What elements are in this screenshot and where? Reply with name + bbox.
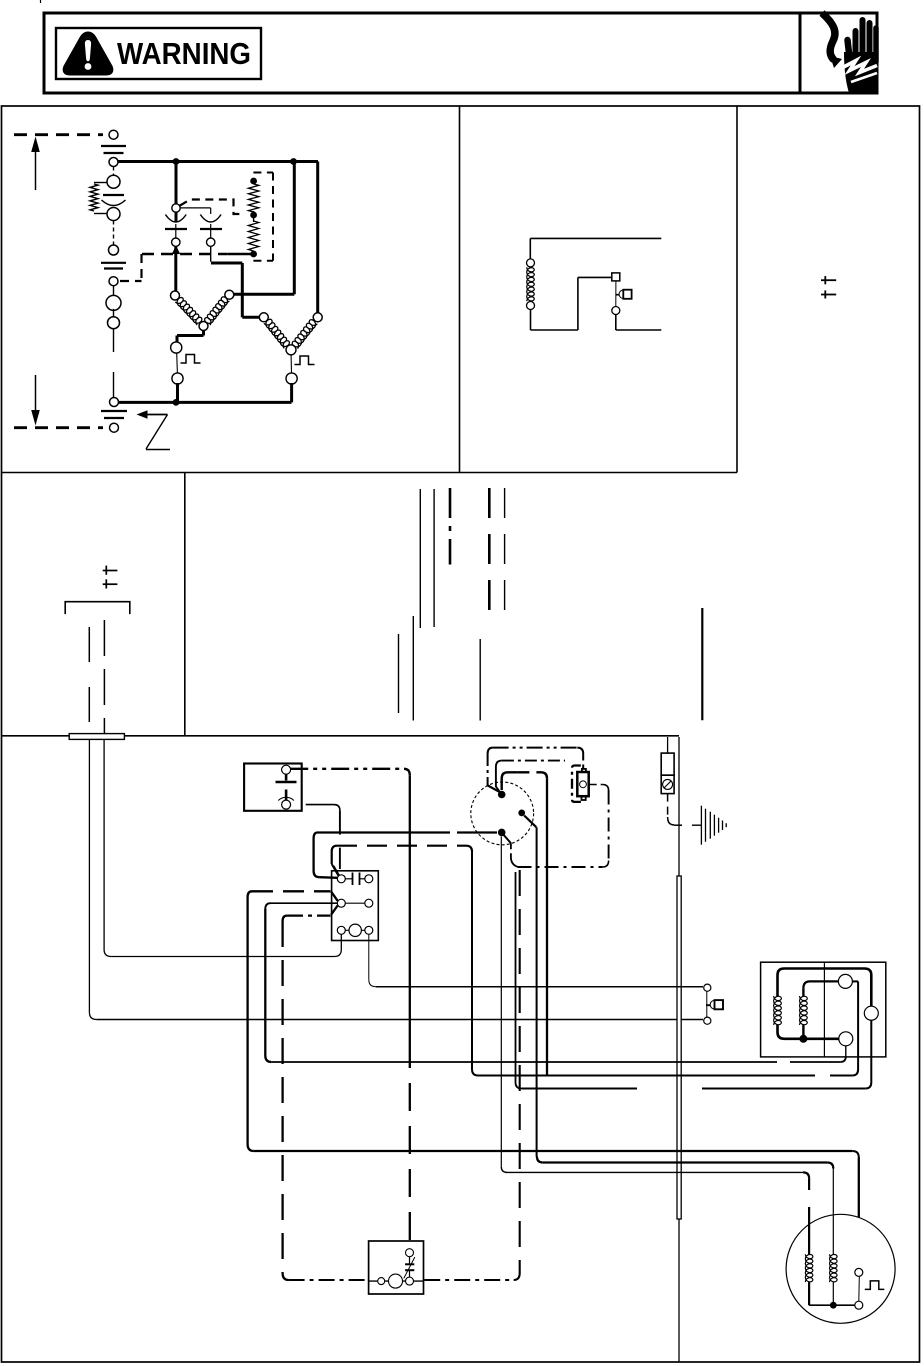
page crop tick [40, 0, 42, 3]
fuse symbol [663, 779, 673, 789]
winding A coil 1 [175, 298, 202, 326]
wire bus to contactor 1 [175, 162, 178, 223]
junction dot L2 [173, 399, 180, 406]
winding B vertex [286, 345, 296, 355]
junction dot bus 1 [173, 158, 180, 165]
wire run y1088 [515, 872, 517, 1083]
wire run y1162 [543, 1161, 827, 1163]
divider in middle band [184, 473, 186, 736]
chain capacitor segment [113, 221, 115, 246]
wire run y1172 [506, 1171, 804, 1173]
shock hazard icon box [800, 13, 877, 93]
rotary top wire dashdotdot [493, 747, 578, 749]
rotary top second wire [496, 761, 502, 793]
wire overload A to L2 [176, 383, 179, 402]
rotary top wire dashdot riser [487, 754, 489, 786]
wire to relay row2 [271, 902, 338, 904]
contactor contact 1 arc [165, 215, 186, 223]
winding A terminal 1 [171, 291, 180, 300]
winding A vertex lead [202, 331, 205, 336]
contactor contact 1 plate [165, 228, 187, 230]
shock hazard hand-and-cable icon [822, 13, 835, 60]
wire B horizontal dash-dot [289, 1279, 369, 1281]
overload B step symbol [295, 356, 315, 365]
outdoor thermostat box [369, 1241, 424, 1294]
coil bottom terminal [527, 302, 535, 310]
wire bus2 to winding A2 [293, 162, 296, 295]
heater resistor R2 [248, 221, 258, 251]
tstat wire 3 dash-dot [449, 488, 452, 565]
wire W1 drop [409, 775, 411, 1040]
fuse link housing [661, 753, 674, 775]
defrost relay box [332, 871, 379, 941]
contactor contact 2 plate [200, 228, 222, 230]
rotary mid contact dot [518, 810, 525, 817]
hps lead down [615, 315, 617, 331]
hps bottom wire right [616, 329, 662, 331]
fan motor circle [786, 1214, 895, 1323]
odt small circle [378, 1278, 385, 1285]
relay armature [331, 892, 337, 901]
winding B terminal 2 [313, 313, 322, 322]
sensor wire [589, 784, 603, 786]
field power dashed lead top [14, 133, 103, 136]
wire O horizontal run [254, 1150, 853, 1152]
bottom plug plates [101, 410, 127, 412]
terminal circle plug top [109, 130, 118, 139]
wire run y1076 [472, 1069, 478, 1076]
contactor plunger arrow [172, 246, 180, 255]
bottom plug circle [110, 423, 119, 432]
chain lower circles [113, 286, 115, 297]
wire overload B to L2 [290, 383, 293, 402]
thermostat wire R dashed upper [88, 627, 90, 736]
junction dot bus 2 [290, 158, 297, 165]
heater node dot middle [250, 212, 257, 219]
field power dashed lead bottom [14, 426, 103, 429]
defrost control rotary switch [471, 782, 534, 845]
discharge temperature sensor bars [700, 806, 702, 845]
power bus L2 [119, 401, 292, 404]
wire to pressure switch lower [96, 1019, 703, 1021]
hps bellows link [616, 294, 619, 296]
transformer terminal top right [838, 974, 852, 988]
warning label inner box [56, 28, 261, 79]
top edge of low-voltage box [2, 735, 680, 737]
defrost sensor [577, 772, 588, 796]
fan coil 2 [830, 1254, 838, 1282]
tstat wire 5 dashed [504, 488, 506, 625]
transformer loop bottom [778, 1025, 840, 1039]
relay contact row2 [337, 899, 345, 907]
bus terminal bottom circle [110, 398, 119, 407]
winding B coil 1 [264, 319, 290, 348]
wire O dashed [252, 890, 331, 892]
transformer terminal bottom [839, 1032, 853, 1046]
relay contact row1 [337, 875, 345, 883]
connector mark left top [103, 570, 118, 572]
wire rotary top to transformer [502, 772, 518, 790]
coil top terminal [527, 259, 535, 267]
wire contact2 to winding B1 [210, 246, 212, 261]
vertical bus wire lower [678, 1219, 680, 1362]
heater element bar [677, 876, 681, 1219]
defrost relay feed diagonal [334, 866, 340, 876]
wire to defrost relay coil [111, 956, 334, 958]
dashed drop to plug [140, 254, 142, 281]
contact link wire [180, 207, 211, 209]
wire B dash-dot [287, 914, 331, 916]
low voltage terminal plate [69, 734, 124, 740]
rotary bottom slant [504, 835, 511, 844]
fan coil 1 [805, 1254, 813, 1282]
hps top wire [530, 237, 661, 239]
defrost tstat lower wire [306, 804, 334, 806]
transformer crossing wire [823, 962, 825, 1057]
thermostat wire R lower [88, 739, 90, 1012]
right edge of pressure-switch box [736, 106, 738, 473]
contactor contact 1 top circle [172, 204, 180, 212]
vertical bus wire [678, 737, 680, 876]
wire to heater bottom [228, 253, 251, 256]
tstat wire 1 [419, 489, 421, 628]
transformer terminal right [864, 1006, 878, 1020]
wire run to transformer bottom [271, 1061, 777, 1063]
fan junction dot [830, 1302, 837, 1309]
bottom edge of upper boxes [2, 472, 738, 474]
overload switch A [171, 342, 182, 353]
contactor contact 1 bottom circle [172, 238, 180, 246]
rotary top contact dot [498, 791, 506, 799]
transformer box [761, 962, 886, 1057]
fuse lead top [667, 737, 669, 753]
defrost thermostat contact [282, 765, 291, 774]
tstat wire 2 [433, 489, 435, 627]
winding B coil 2 [292, 320, 317, 349]
relay coil right wire [368, 934, 370, 980]
hps bellows [619, 290, 627, 298]
connector mark right bottom [821, 294, 836, 296]
hps bottom terminal [612, 307, 620, 315]
reversing valve stub wire [701, 608, 703, 720]
hps riser [577, 277, 579, 330]
odt capacitor [409, 1270, 411, 1277]
rotary wire to relay [318, 831, 451, 833]
terminal circle below plug [109, 158, 118, 167]
odt switch blade [404, 1257, 415, 1278]
hps fixed terminal square [612, 273, 620, 281]
power bus L1 [118, 160, 318, 163]
fan common bus [809, 1304, 855, 1306]
connector mark left bottom [103, 583, 118, 585]
fuse lead bottom dashed [667, 794, 669, 817]
tstat wire 4 dashed [488, 488, 491, 625]
odt top terminal [406, 1249, 414, 1257]
relay coil row [337, 926, 345, 934]
odt wire through [369, 1280, 424, 1282]
fan wire left dashed [803, 1172, 809, 1178]
defrost tstat wire dashdot [290, 768, 404, 770]
coil lead down [529, 238, 531, 259]
down arrow [35, 375, 37, 418]
contactor contact 2 bottom circle [207, 238, 215, 246]
contactor contact 2 arc [200, 215, 221, 223]
winding A coil 2 [205, 297, 230, 325]
tstat wire 6 [398, 634, 400, 713]
up arrow [35, 144, 37, 190]
divider between compressor box and pressure-switch box [459, 106, 461, 473]
hps bottom wire left [531, 329, 578, 331]
winding A vertex [199, 322, 208, 331]
crankcase heater dashed box [253, 172, 273, 174]
contactor coil actuation dashed link [180, 200, 244, 215]
defrost thermostat box [244, 764, 302, 811]
transformer loop top [778, 969, 872, 1007]
transformer inner wire [803, 981, 838, 988]
wire to pressure switch upper [376, 986, 703, 988]
relay top dashed wire [337, 845, 466, 847]
contactor coil winding [527, 267, 535, 301]
wire bus end to winding B2 [316, 162, 319, 313]
thermostat wire C dashed upper [103, 620, 105, 736]
heater resistor R1 [248, 184, 258, 212]
rotary bottom contact dot [498, 829, 506, 837]
overload switch B [290, 355, 292, 373]
tstat wire 8 [479, 639, 481, 721]
hps blade [615, 281, 617, 307]
odt right circle [406, 1277, 414, 1285]
fan thermal switch [855, 1268, 863, 1276]
plug capacitor plates top [101, 145, 126, 147]
winding A terminal 2 [225, 290, 234, 299]
compressor plug overload chain [113, 167, 115, 177]
svg-text:WARNING: WARNING [117, 37, 251, 71]
winding B terminal 1 [259, 313, 268, 322]
fan overload step symbol [865, 1281, 885, 1290]
fan coil leads [808, 1282, 810, 1305]
coil lead to bottom wire [530, 310, 532, 331]
bleed resistor [94, 182, 107, 184]
tstat wire 7 [412, 616, 414, 721]
odt big circle [389, 1274, 403, 1288]
connector mark right top [821, 279, 836, 281]
overload A step symbol [181, 355, 201, 364]
outdoor pressure switch [704, 984, 711, 991]
transformer junction dot [799, 1035, 807, 1043]
warning banner outer box [44, 13, 877, 93]
sensor jumper dashdot [518, 866, 603, 868]
heater node dot bottom [250, 251, 257, 258]
thermostat wire C lower [103, 739, 105, 949]
fan wire mid [827, 1163, 833, 1169]
ground fault arrow [137, 410, 148, 419]
warning triangle icon [63, 32, 114, 76]
bracket symbol [65, 602, 130, 614]
heater node dot top [250, 178, 257, 185]
transformer secondary coil [800, 996, 808, 1025]
hps link [578, 276, 612, 278]
transformer primary coil [774, 996, 782, 1025]
